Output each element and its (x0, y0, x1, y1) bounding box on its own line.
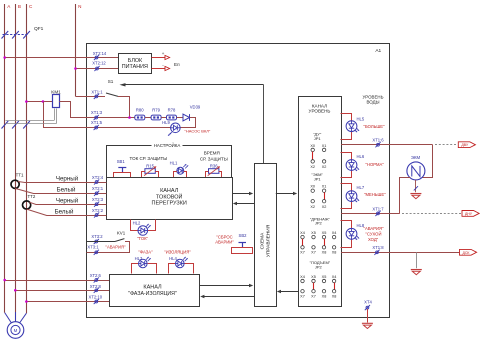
wire isolation to scheme (199, 285, 250, 287)
svg-text:X8: X8 (332, 250, 337, 254)
svg-text:X2: X2 (322, 205, 327, 209)
svg-text:"СУХОЙ: "СУХОЙ (366, 232, 382, 237)
wire XT1:6 DVU (341, 144, 433, 146)
svg-text:HL4: HL4 (169, 256, 177, 261)
wire TT2 black (29, 202, 106, 204)
svg-text:X5: X5 (311, 275, 316, 279)
svg-text:X4: X4 (332, 231, 337, 235)
svg-text:XT2:1: XT2:1 (92, 186, 104, 191)
svg-text:VD39: VD39 (190, 105, 201, 110)
svg-text:ДСК: ДСК (463, 251, 471, 255)
svg-text:X7: X7 (311, 294, 316, 298)
svg-text:УПРАВЛЕНИЯ: УПРАВЛЕНИЯ (266, 224, 272, 257)
svg-text:X8: X8 (322, 294, 327, 298)
svg-text:HL3: HL3 (135, 256, 143, 261)
svg-text:СР. ЗАЩИТЫ: СР. ЗАЩИТЫ (200, 156, 228, 161)
svg-text:ВОДЫ: ВОДЫ (367, 99, 380, 104)
wire VD39 to HL9 (180, 118, 195, 128)
node junction B sense (14, 289, 17, 292)
wire +Ep output (151, 57, 165, 59)
svg-text:JP2: JP2 (315, 264, 323, 269)
svg-text:Черный: Черный (56, 198, 79, 205)
svg-text:JP1: JP1 (314, 177, 322, 182)
svg-text:SB2: SB2 (239, 233, 248, 238)
node DNU (462, 211, 479, 217)
svg-text:X1: X1 (322, 144, 327, 148)
svg-text:ТОКОВОЙ: ТОКОВОЙ (156, 192, 183, 200)
wire line B to XT2:8 (15, 290, 109, 292)
svg-text:X0: X0 (310, 185, 315, 189)
power supply unit (119, 54, 152, 74)
svg-text:KV1: KV1 (117, 231, 126, 236)
wire XT1:7 DNU (341, 213, 400, 215)
svg-text:"ТОК": "ТОК" (137, 236, 149, 241)
svg-text:Белый: Белый (57, 187, 76, 194)
node S1 junction (128, 116, 131, 119)
svg-text:ПЕРЕГРУЗКИ: ПЕРЕГРУЗКИ (152, 201, 187, 207)
svg-text:ДНУ: ДНУ (465, 212, 473, 216)
svg-text:X4: X4 (300, 275, 305, 279)
svg-text:X5: X5 (311, 231, 316, 235)
svg-text:ХОД": ХОД" (368, 237, 379, 242)
wire XT1:8 DSK (341, 252, 459, 254)
svg-text:X7: X7 (300, 250, 305, 254)
svg-text:"БОЛЬШЕ": "БОЛЬШЕ" (364, 124, 386, 129)
wire TT1 white (15, 188, 106, 193)
svg-text:"НОРМА": "НОРМА" (366, 162, 385, 167)
svg-text:XT1:3: XT1:3 (91, 110, 103, 115)
block current overload channel (107, 178, 233, 220)
svg-text:XT1:8: XT1:8 (372, 245, 384, 250)
block phase isolation channel (110, 275, 200, 307)
svg-text:R15: R15 (146, 163, 154, 168)
svg-text:A1: A1 (375, 48, 381, 54)
svg-text:"МЕНЬШЕ": "МЕНЬШЕ" (364, 192, 386, 197)
svg-text:"ИЗОЛЯЦИЯ": "ИЗОЛЯЦИЯ" (164, 249, 191, 254)
svg-text:HL5: HL5 (357, 116, 365, 121)
svg-text:XT2:12: XT2:12 (92, 60, 106, 65)
block level channel (299, 97, 342, 307)
wire EKM right (422, 145, 433, 178)
svg-text:QF1: QF1 (34, 26, 44, 32)
svg-text:HL2: HL2 (133, 220, 141, 225)
wire line A to XT2:6 (5, 280, 110, 282)
svg-text:XT2:6: XT2:6 (90, 273, 102, 278)
wire R79-R78 (161, 117, 166, 119)
svg-text:JP2: JP2 (315, 221, 323, 226)
svg-text:X7: X7 (311, 250, 316, 254)
svg-text:Белый: Белый (55, 208, 74, 215)
svg-text:HL1: HL1 (170, 161, 178, 166)
wire tap to XT1:5 (44, 102, 171, 128)
node junction XT1:5 tap (42, 100, 45, 103)
svg-text:R78: R78 (168, 107, 176, 112)
svg-text:X2: X2 (322, 165, 327, 169)
led HL2 (131, 220, 156, 231)
wire line A to XT2:14 (5, 57, 119, 59)
wire TT1 black (18, 182, 106, 183)
svg-text:XT2:14: XT2:14 (93, 51, 107, 56)
svg-text:SB1: SB1 (117, 159, 126, 164)
svg-text:X8: X8 (332, 294, 337, 298)
svg-text:ПИТАНИЯ: ПИТАНИЯ (122, 64, 148, 70)
ground EKM (410, 193, 421, 195)
svg-text:R36: R36 (210, 163, 218, 168)
wire scheme to isolation (203, 296, 254, 298)
svg-text:СХЕМА: СХЕМА (260, 232, 266, 250)
wire phase line C (26, 4, 28, 313)
wire neutral N (75, 4, 77, 96)
svg-text:R79: R79 (152, 107, 160, 112)
svg-text:XT1:5: XT1:5 (91, 120, 103, 125)
svg-text:XT2:3: XT2:3 (92, 197, 104, 202)
wire line C to KM1 coil (26, 101, 52, 103)
svg-text:Еп: Еп (174, 62, 180, 67)
block control scheme (255, 164, 277, 307)
settings group NASTROIKA (107, 146, 232, 178)
svg-text:XT2:10: XT2:10 (89, 294, 103, 299)
led HL8 (341, 221, 352, 248)
node junction C sense (25, 300, 28, 303)
ground DSK (411, 269, 422, 271)
svg-text:ДВУ: ДВУ (461, 143, 469, 147)
svg-text:"АВАРИЯ": "АВАРИЯ" (106, 245, 127, 250)
svg-text:TT1: TT1 (16, 173, 24, 178)
svg-text:X8: X8 (322, 250, 327, 254)
ground XT4 (362, 322, 373, 324)
svg-text:НАСТРОЙКА: НАСТРОЙКА (154, 143, 181, 148)
svg-text:HL6: HL6 (357, 154, 365, 159)
wire overload to scheme (232, 193, 250, 195)
svg-text:KM1: KM1 (51, 90, 61, 95)
svg-text:X1: X1 (322, 185, 327, 189)
wire line C to XT2:10 (26, 301, 109, 303)
wire S1 to node (118, 97, 130, 118)
wire dashed to DVU (435, 144, 457, 146)
led HL6 (341, 153, 352, 178)
svg-text:B: B (18, 4, 21, 9)
node DVU (458, 142, 475, 148)
svg-text:XT2:2: XT2:2 (92, 208, 104, 213)
node junction A power (3, 56, 6, 59)
svg-text:X2: X2 (310, 165, 315, 169)
svg-text:"АВАРИЯ": "АВАРИЯ" (364, 226, 385, 231)
wire DSK ground drop (416, 252, 418, 268)
svg-text:"НАСОС ВКЛ": "НАСОС ВКЛ" (185, 128, 211, 133)
svg-text:XT2:8: XT2:8 (90, 284, 102, 289)
wire R80-R79 (145, 117, 151, 119)
led HL5 (341, 114, 352, 140)
wire TT2 white (27, 209, 107, 215)
svg-text:КАНАЛ: КАНАЛ (160, 188, 179, 194)
wire N to XT2:12 (76, 68, 119, 70)
motor M (7, 322, 24, 339)
svg-text:N: N (78, 4, 81, 9)
wire dashed to DNU (402, 213, 461, 215)
svg-text:X5: X5 (322, 231, 327, 235)
wire EKM left (400, 178, 411, 214)
svg-text:"ФАЗА-ИЗОЛЯЦИЯ": "ФАЗА-ИЗОЛЯЦИЯ" (128, 291, 177, 297)
wire EKM ground (415, 180, 417, 192)
svg-text:X7: X7 (300, 294, 305, 298)
svg-text:S1: S1 (108, 79, 114, 84)
svg-text:+: + (162, 51, 165, 56)
led HL7 (341, 184, 352, 209)
svg-text:ЭКМ: ЭКМ (411, 155, 421, 160)
svg-text:XT4: XT4 (364, 299, 372, 304)
svg-text:XT1:6: XT1:6 (372, 138, 384, 143)
wire R78 to VD39 (177, 117, 184, 119)
svg-text:ТОК СР. ЗАЩИТЫ: ТОК СР. ЗАЩИТЫ (130, 156, 168, 161)
svg-text:XT2:4: XT2:4 (92, 175, 104, 180)
svg-text:КАНАЛ: КАНАЛ (143, 284, 162, 290)
svg-text:XT1:1: XT1:1 (91, 89, 103, 94)
svg-text:M: M (14, 328, 18, 333)
svg-text:X0: X0 (310, 144, 315, 148)
svg-text:HL7: HL7 (357, 185, 365, 190)
svg-text:X4: X4 (332, 275, 337, 279)
svg-text:УРОВЕНЬ: УРОВЕНЬ (309, 109, 331, 114)
block A1 enclosure (87, 44, 390, 318)
svg-text:X5: X5 (322, 275, 327, 279)
wire -Ep output (151, 68, 165, 70)
svg-text:JP1: JP1 (314, 136, 322, 141)
wire phase line B (15, 4, 17, 322)
svg-text:X4: X4 (300, 231, 305, 235)
svg-text:R80: R80 (136, 107, 144, 112)
svg-text:XT1:7: XT1:7 (372, 206, 384, 211)
wire phase line A (4, 4, 6, 313)
node junction C coil (25, 100, 28, 103)
wire scheme to overload (236, 203, 254, 205)
node junction A sense (3, 279, 6, 282)
wire KV1 to XT3:1 (87, 242, 130, 253)
svg-text:TT2: TT2 (27, 194, 35, 199)
wire N down to XT1:1 (76, 96, 106, 98)
wire KM1 to XT1:3 (59, 102, 135, 118)
wire scheme to level (276, 193, 294, 195)
svg-text:X2: X2 (310, 205, 315, 209)
node junction N power (74, 67, 77, 70)
svg-text:АВАРИИ": АВАРИИ" (215, 240, 234, 245)
contactor KM1 contacts (2, 121, 9, 129)
svg-text:ВРЕМЯ: ВРЕМЯ (204, 151, 220, 156)
svg-text:XT3:2: XT3:2 (91, 234, 103, 239)
svg-text:"ФАЗА": "ФАЗА" (138, 249, 153, 254)
wire level to scheme (280, 291, 298, 293)
svg-text:HL9: HL9 (162, 120, 170, 125)
wire XT4 ground (367, 309, 369, 323)
svg-text:Черный: Черный (56, 175, 79, 182)
svg-text:XT3:1: XT3:1 (87, 245, 99, 250)
node DSK (460, 249, 477, 255)
wire motor leads (5, 313, 12, 323)
